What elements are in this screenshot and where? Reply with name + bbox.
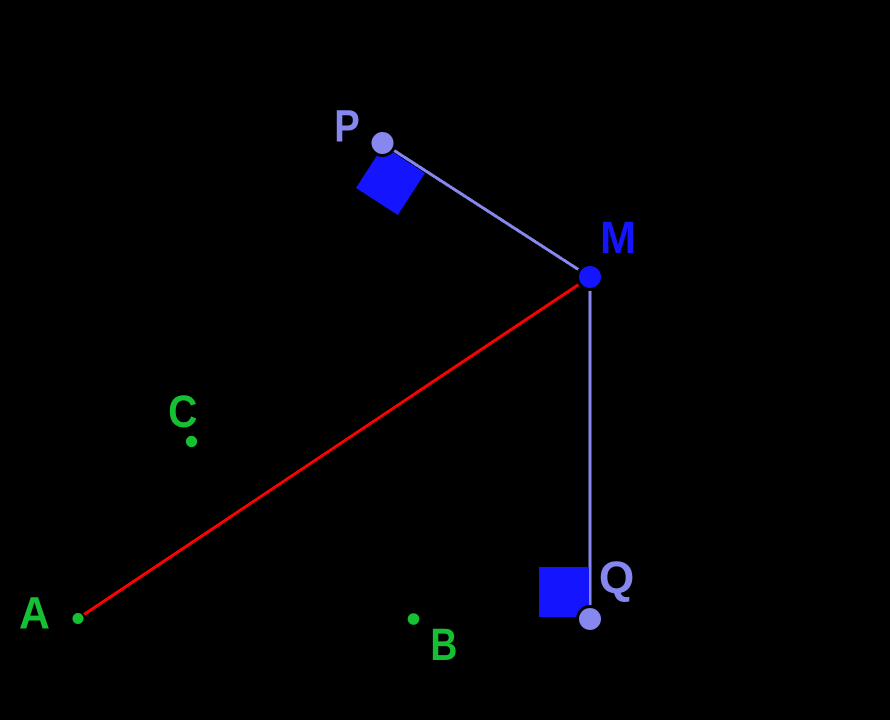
svg-text:M: M [600,212,636,263]
segment AM (red) [78,277,590,619]
point P [370,131,395,156]
svg-text:Q: Q [599,552,634,603]
label Q [599,552,634,603]
svg-text:B: B [430,619,457,670]
point A [72,612,85,625]
point B [408,613,420,625]
label M [600,212,636,263]
point C [186,436,197,447]
segment MQ [589,277,592,619]
label C [168,386,197,437]
point Q [578,607,603,632]
label A [19,587,50,638]
square at P (rotated, corner at P) [356,146,425,215]
label B [430,619,457,670]
point M [578,265,603,290]
svg-text:C: C [168,386,197,437]
svg-text:P: P [334,100,360,151]
label P [334,100,360,151]
segment PM [383,143,591,277]
square at Q (corner at Q) [539,567,589,617]
svg-text:A: A [19,587,50,638]
